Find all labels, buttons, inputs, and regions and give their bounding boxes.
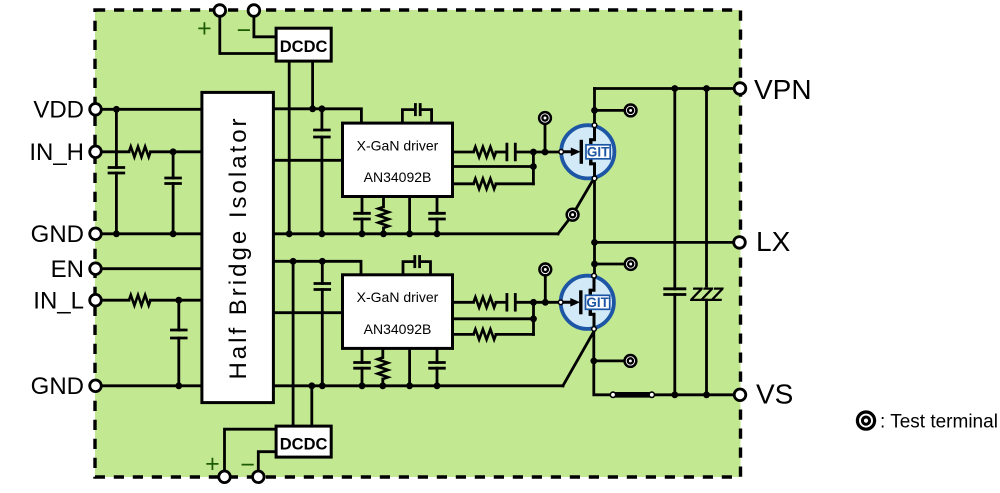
capacitor lead upper supply bypass lower — [320, 137, 323, 234]
wire lower mid feedback — [453, 317, 534, 320]
capacitor lead upper driver bottom right lower — [436, 219, 439, 234]
junction lower bus at mid line — [530, 315, 537, 322]
junction DCDC2 output at lower supply line — [290, 258, 297, 265]
junction upper drain test stub — [591, 107, 598, 114]
terminal IN_L — [90, 294, 102, 306]
transistor upper GIT label box — [586, 145, 610, 159]
junction IN_H cap at GND rail — [170, 230, 177, 237]
node upper drain — [592, 123, 597, 128]
svg-text:VPN: VPN — [754, 74, 812, 105]
wire upper drain — [593, 89, 596, 125]
svg-text:GIT: GIT — [587, 145, 610, 160]
node shunt left — [610, 392, 615, 397]
capacitor lead lower supply bypass — [321, 261, 324, 283]
junction upper bottom cap1 at rail — [359, 230, 366, 237]
shunt bar on VS rail — [615, 392, 650, 398]
test terminal upper source — [567, 209, 579, 221]
junction DC-link cap at VS rail — [671, 391, 678, 398]
node lower drain — [592, 273, 597, 278]
junction upper bottom resistor at rail — [380, 230, 387, 237]
wire EN input — [101, 267, 202, 270]
wire IN_H to isolator — [151, 150, 202, 153]
wire lower gate resistor to cap — [496, 301, 506, 304]
capacitor IN_H filter — [164, 178, 182, 184]
capacitor lead upper supply bypass — [320, 109, 323, 130]
transistor upper gate arrow — [571, 148, 581, 157]
wire upper driver supply — [273, 109, 361, 123]
terminal supply + top — [214, 5, 226, 17]
resistor lower low output — [474, 329, 497, 339]
capacitor upper supply bypass — [313, 130, 331, 137]
junction DC-link cap at VPN rail — [671, 85, 678, 92]
wire lower gate test stem — [544, 275, 547, 303]
svg-text:GND: GND — [31, 221, 84, 248]
svg-text:VDD: VDD — [33, 97, 84, 124]
transistor lower gate lead — [560, 301, 574, 304]
capacitor lead DC-link lower — [673, 295, 676, 395]
svg-text:IN_H: IN_H — [29, 139, 84, 166]
wire lower GND rail — [101, 384, 563, 387]
svg-text:GIT: GIT — [586, 295, 609, 310]
resistor lead upper driver bottom lower — [382, 228, 385, 234]
transistor lower source lead — [590, 314, 594, 329]
svg-text:−: − — [236, 17, 251, 45]
capacitor lead lower supply bypass lower — [321, 290, 324, 386]
junction DCDC1 return at GND rail — [286, 230, 293, 237]
capacitor lower gate speedup — [507, 293, 515, 312]
capacitor lead DC-link upper — [673, 89, 676, 289]
svg-text:EN: EN — [51, 256, 84, 283]
wire upper low output to bus — [496, 182, 533, 185]
wire VDD input — [101, 108, 202, 111]
node upper source — [592, 176, 597, 181]
svg-text:: Test terminal: : Test terminal — [880, 412, 998, 433]
junction lower bus at gate line — [530, 299, 537, 306]
junction upper bypass cap at GND rail — [319, 230, 326, 237]
capacitor IN_L filter — [170, 330, 188, 338]
capacitor upper bootstrap — [415, 103, 420, 116]
wire - terminal to DCDC2 — [258, 452, 276, 473]
capacitor upper gate speedup — [507, 143, 515, 162]
junction lower bottom cap2 at rail — [434, 382, 441, 389]
wire DCDC1 output to upper supply node — [311, 61, 314, 109]
svg-text:+: + — [205, 450, 220, 478]
svg-text:DCDC: DCDC — [280, 38, 328, 56]
capacitor lead VDD bypass lower — [115, 173, 118, 234]
resistor lower gate — [474, 297, 497, 307]
wire + terminal to DCDC2 — [225, 429, 277, 473]
wire upper GND rail — [101, 232, 558, 235]
test terminal lower source — [625, 355, 637, 367]
capacitor lead lower driver bottom left — [361, 348, 364, 362]
transistor upper channel bar — [589, 138, 592, 165]
transistor lower GaN GIT body — [561, 276, 614, 329]
capacitor lead VDD bypass — [115, 109, 118, 167]
wire upper low output — [453, 182, 474, 185]
wire DCDC2 return to lower GND rail — [310, 386, 313, 426]
junction lower source test stub — [590, 358, 597, 365]
resistor upper gate — [474, 147, 497, 157]
junction lower bottom cap1 at rail — [359, 382, 366, 389]
junction upper bottom return at rail — [406, 230, 413, 237]
capacitor lead lower driver bottom left lower — [361, 368, 364, 386]
transistor upper gate bar — [580, 140, 583, 164]
capacitor lead IN_L filter lower — [177, 338, 180, 386]
wire lower source down — [594, 332, 734, 395]
resistor lead lower driver bottom — [381, 348, 384, 357]
wire lower gate cap to gate node — [517, 301, 557, 304]
wire upper gate bus — [532, 152, 535, 184]
wire upper gate test stem — [544, 123, 547, 152]
junction IN_L cap at GND rail — [175, 382, 182, 389]
wire lower low output to bus — [496, 333, 534, 336]
svg-text:AN34092B: AN34092B — [364, 321, 432, 337]
capacitor DC-link — [663, 289, 686, 295]
junction lower bypass cap at supply line — [319, 258, 326, 265]
block lower X-GaN driver — [343, 275, 453, 349]
capacitor lower driver bottom right — [428, 363, 446, 369]
load lead lower — [705, 300, 708, 395]
capacitor upper driver bottom right — [428, 213, 446, 219]
block upper X-GaN driver — [343, 123, 453, 196]
terminal GND upper — [90, 228, 102, 240]
bootstrap loop lower left stub — [403, 262, 413, 275]
wire DCDC2 output to lower supply node — [292, 261, 295, 426]
junction load at VS rail — [703, 391, 710, 398]
resistor upper driver bottom — [378, 207, 388, 228]
load lead upper — [705, 89, 708, 287]
transistor lower gate bar — [579, 290, 582, 314]
junction DCDC1 output at supply line — [309, 105, 316, 112]
junction IN_L branch — [175, 297, 182, 304]
wire upper source return diagonal — [558, 179, 594, 234]
capacitor lower bootstrap — [415, 255, 420, 268]
resistor IN_L filter — [129, 295, 151, 305]
svg-text:AN34092B: AN34092B — [364, 169, 432, 185]
capacitor upper driver bottom left — [353, 213, 371, 219]
terminal supply - top — [248, 5, 260, 17]
capacitor lower supply bypass — [314, 284, 332, 290]
resistor IN_H filter — [129, 147, 151, 157]
test terminal lower gate — [539, 264, 551, 276]
terminal EN — [90, 263, 102, 275]
svg-text:VS: VS — [756, 379, 793, 410]
capacitor lead IN_L filter — [177, 300, 180, 330]
junction switch node test stub — [591, 261, 598, 268]
svg-text:GND: GND — [31, 373, 84, 400]
terminal LX — [734, 237, 746, 249]
test terminal upper drain — [625, 105, 637, 117]
wire lower low output — [453, 333, 474, 336]
wire + terminal to DCDC1 — [220, 14, 276, 54]
wire DCDC1 return to upper GND rail — [288, 61, 291, 234]
capacitor lead upper driver bottom left lower — [361, 219, 364, 234]
test terminal upper gate — [539, 112, 551, 124]
junction DCDC2 return at lower GND rail — [308, 382, 315, 389]
capacitor lead lower driver bottom right lower — [436, 368, 439, 386]
junction VDD cap at GND rail — [113, 230, 120, 237]
terminal supply - bottom — [252, 471, 264, 483]
wire LX line — [595, 241, 735, 244]
transistor lower gate arrow — [570, 298, 580, 307]
capacitor VDD bypass — [108, 168, 126, 174]
transistor upper drain lead — [591, 125, 595, 140]
capacitor lead IN_H filter lower — [172, 184, 175, 234]
svg-text:LX: LX — [756, 226, 791, 257]
wire isolator to lower driver signal — [273, 311, 342, 314]
wire switch node — [593, 179, 596, 276]
terminal supply + bottom — [219, 471, 231, 483]
junction LX tap — [591, 239, 598, 246]
terminal VDD — [90, 104, 102, 116]
block DCDC top — [276, 28, 331, 61]
junction lower bottom resistor at rail — [379, 382, 386, 389]
terminal IN_H — [90, 146, 102, 158]
wire upper gate cap to gate node — [517, 151, 558, 154]
wire upper gate drive — [453, 151, 474, 154]
junction upper gate test stem — [542, 149, 549, 156]
transistor upper gate lead — [561, 150, 575, 153]
wire upper mid feedback — [453, 165, 534, 168]
wire isolator to upper driver signal — [273, 159, 342, 162]
terminal VS — [734, 389, 746, 401]
resistor lead upper driver bottom — [382, 197, 385, 207]
block DCDC bottom — [276, 426, 331, 457]
wire upper driver bottom return — [408, 197, 411, 234]
capacitor lead upper driver bottom right — [436, 197, 439, 214]
svg-text:DCDC: DCDC — [280, 436, 328, 454]
node lower gate — [558, 300, 563, 305]
svg-text:Half Bridge Isolator: Half Bridge Isolator — [225, 115, 252, 379]
wire lower driver supply — [273, 261, 361, 275]
block Half Bridge Isolator — [202, 92, 274, 402]
transistor upper GaN GIT body — [561, 125, 614, 178]
terminal VPN — [734, 83, 746, 95]
transistor lower channel bar — [589, 289, 592, 316]
transistor lower drain lead — [590, 275, 594, 290]
junction lower bypass cap at GND rail — [319, 382, 326, 389]
svg-text:X-GaN driver: X-GaN driver — [357, 289, 439, 305]
junction load at VPN rail — [703, 85, 710, 92]
bootstrap loop lower right stub — [421, 262, 430, 275]
wire lower source test stub — [594, 359, 625, 362]
terminal GND lower — [90, 380, 102, 392]
resistor lead lower driver bottom lower — [381, 379, 384, 386]
transistor upper source lead — [591, 164, 595, 179]
junction VDD branch — [113, 106, 120, 113]
capacitor lower driver bottom left — [353, 363, 371, 369]
legend test terminal symbol — [857, 412, 874, 429]
bootstrap loop upper right stub — [422, 110, 432, 124]
transistor lower GIT label box — [586, 295, 610, 309]
capacitor lead upper driver bottom left — [361, 197, 364, 214]
wire - terminal to DCDC1 — [254, 14, 276, 37]
wire lower source return diagonal — [563, 332, 594, 386]
wire VPN rail — [595, 87, 735, 90]
wire upper gate resistor to cap — [496, 151, 506, 154]
svg-text:+: + — [197, 15, 212, 43]
wire lower gate drive — [453, 301, 474, 304]
capacitor lead lower driver bottom right — [436, 348, 439, 362]
bootstrap loop upper left stub — [402, 110, 413, 124]
resistor lower driver bottom — [378, 358, 388, 380]
wire IN_L lead-in — [101, 299, 129, 302]
node upper gate — [559, 150, 564, 155]
wire IN_L to isolator — [151, 299, 202, 302]
test terminal switch node — [625, 258, 637, 270]
junction upper bypass cap at supply line — [319, 105, 326, 112]
junction lower bottom return at rail — [406, 382, 413, 389]
svg-text:IN_L: IN_L — [33, 288, 84, 315]
wire IN_H lead-in — [101, 150, 129, 153]
node shunt right — [649, 392, 654, 397]
junction lower gate test stem — [542, 299, 549, 306]
board outline (green area with dashed border) — [95, 10, 741, 477]
wire lower driver bottom return — [408, 348, 411, 385]
junction upper bus at gate line — [530, 149, 537, 156]
svg-text:X-GaN driver: X-GaN driver — [357, 137, 439, 153]
node lower source — [592, 327, 597, 332]
junction IN_H branch — [170, 148, 177, 155]
wire upper drain test stub — [595, 109, 626, 112]
resistor upper low output — [474, 179, 497, 189]
wire switch node test stub — [595, 263, 626, 266]
junction upper bus at mid line — [530, 163, 537, 170]
wire lower gate bus — [532, 302, 535, 334]
junction upper bottom cap2 at rail — [434, 230, 441, 237]
capacitor lead IN_H filter — [172, 152, 175, 178]
